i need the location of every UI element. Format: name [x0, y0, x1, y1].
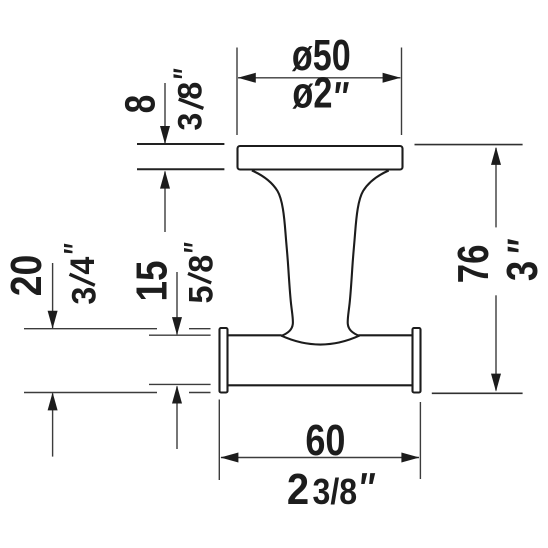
dim76 extension line top: [415, 144, 523, 146]
dim20 extension top right segment: [189, 328, 211, 330]
dim15 arrow line upper: [176, 272, 178, 334]
dim76 arrow up: [491, 147, 501, 165]
svg-text:15: 15: [126, 260, 176, 301]
svg-text:″: ″: [178, 242, 215, 253]
svg-text:3: 3: [66, 287, 104, 305]
svg-text:″: ″: [58, 243, 95, 254]
dia50 arrow right: [383, 73, 401, 83]
svg-text:60: 60: [305, 416, 345, 465]
svg-text:3: 3: [497, 261, 547, 281]
funnel left edge: [252, 171, 293, 337]
label 3/4in slash: [70, 274, 95, 285]
dim8 arrow up: [160, 171, 170, 189]
svg-text:″: ″: [498, 238, 546, 253]
svg-text:″: ″: [334, 74, 349, 122]
dia50 dimension line: [238, 77, 400, 79]
dim8 extension line top: [137, 143, 224, 145]
svg-text:8: 8: [117, 95, 165, 114]
dim76 line upper: [495, 148, 497, 227]
dim15 arrow up: [172, 386, 182, 404]
dim15 extension line bottom: [149, 383, 211, 385]
bar top line left segment: [228, 334, 282, 336]
dim8 arrow line lower: [164, 172, 166, 233]
dim15 arrow line lower: [176, 386, 178, 449]
dim8 arrow line upper: [164, 83, 166, 143]
dim20 extension bottom left segment: [24, 392, 157, 394]
dim60 arrow left: [220, 453, 238, 463]
svg-text:3: 3: [172, 113, 210, 131]
dim15 arrow down: [172, 317, 182, 335]
dim76 arrow down: [491, 374, 501, 392]
svg-text:ø2: ø2: [292, 69, 332, 118]
bar bottom line: [228, 384, 413, 386]
dim20 extension bottom right segment: [189, 392, 211, 394]
svg-text:3/8: 3/8: [313, 472, 358, 512]
dim20 extension top left segment: [24, 328, 157, 330]
dim20 arrow up: [48, 392, 58, 410]
svg-text:5: 5: [183, 286, 221, 304]
svg-text:76: 76: [449, 245, 498, 284]
svg-text:20: 20: [1, 255, 51, 297]
dim60 extension line right: [419, 402, 421, 479]
dim60 dimension line: [221, 457, 419, 459]
dia50 extension line left: [236, 48, 238, 136]
svg-text:8: 8: [172, 82, 210, 100]
bar top line right segment: [359, 334, 413, 336]
dim8 extension line bottom: [137, 168, 224, 170]
dim20 arrow down: [48, 311, 58, 329]
svg-text:″: ″: [360, 465, 376, 513]
label 5/8in slash: [188, 273, 211, 283]
left flange: [220, 328, 228, 393]
dim60 extension line left: [218, 400, 220, 481]
dia50 extension line right: [401, 48, 403, 136]
label 3/8in top slash: [179, 99, 204, 108]
dim76 extension line bottom: [432, 392, 523, 394]
funnel foot dip curve: [281, 336, 359, 345]
dim60 arrow right: [401, 453, 419, 463]
dim20 arrow line lower: [52, 393, 54, 456]
dim15 extension line top: [149, 334, 211, 336]
knob top plate: [238, 146, 403, 170]
svg-text:4: 4: [64, 256, 102, 275]
dim8 arrow down: [160, 126, 170, 144]
dia50 arrow left: [238, 73, 256, 83]
svg-text:2: 2: [287, 464, 309, 513]
dim76 line lower: [495, 295, 497, 390]
right flange: [413, 328, 421, 393]
funnel right edge: [348, 171, 389, 337]
svg-text:″: ″: [167, 68, 204, 79]
svg-text:8: 8: [183, 255, 221, 273]
dim20 arrow line upper: [52, 263, 54, 328]
